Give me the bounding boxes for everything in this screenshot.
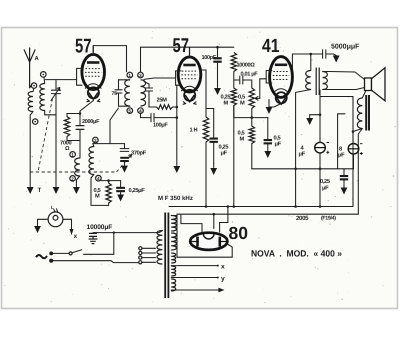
terminal 1 bbox=[70, 152, 76, 158]
output transformer primary bbox=[306, 71, 311, 90]
wires: OT secondary to speaker bbox=[323, 72, 365, 90]
terminal 3 bbox=[93, 137, 99, 143]
wire: field coil bottom junction bbox=[353, 129, 362, 132]
svg-text:57: 57 bbox=[173, 35, 190, 57]
IF transformer 1 primary bbox=[125, 80, 130, 106]
trimmer capacitor 370 pF bbox=[110, 144, 129, 152]
wire: B+ rail bbox=[177, 213, 358, 215]
tube V1 base bbox=[88, 87, 99, 98]
gang dashed link bbox=[38, 99, 53, 173]
resistor 7000 ohm bbox=[64, 117, 69, 137]
wire: V1 cathode down to bias network bbox=[80, 99, 93, 114]
svg-text:80: 80 bbox=[229, 223, 249, 243]
svg-text:370pF: 370pF bbox=[131, 151, 147, 157]
output transformer core bbox=[316, 68, 319, 96]
svg-text:M: M bbox=[240, 137, 245, 143]
ground (V2 grid return) bbox=[173, 166, 180, 173]
terminal 1 bbox=[127, 72, 133, 78]
primary taps bbox=[139, 247, 142, 250]
tube V4 plates bbox=[196, 237, 199, 247]
switch bbox=[49, 252, 53, 256]
svg-text:5000μμF: 5000μμF bbox=[331, 44, 360, 51]
ground (tuning cap) bbox=[53, 187, 60, 194]
svg-text:41: 41 bbox=[262, 36, 280, 57]
tube V4 filament arc bbox=[203, 234, 214, 239]
svg-text:100pF: 100pF bbox=[202, 55, 217, 61]
svg-text:M: M bbox=[240, 101, 245, 107]
wire: long vertical V2 anode choke to bus bbox=[200, 70, 207, 117]
svg-text:μF: μF bbox=[299, 152, 306, 158]
svg-text:μF: μF bbox=[275, 142, 282, 148]
pot wiper arrow bbox=[255, 97, 260, 101]
speaker field coil bbox=[357, 98, 362, 128]
tube V1 internals bbox=[87, 61, 99, 64]
resistor 0,5 M (AVC) bbox=[101, 181, 109, 183]
svg-text:μF: μF bbox=[338, 153, 345, 159]
terminal 6 bbox=[41, 72, 47, 78]
wire: secondary top to V1 grid bbox=[46, 79, 77, 81]
wire: 80 right to filament winding bbox=[177, 244, 232, 257]
wire: V3 plate to output transformer and 5000 cap bbox=[292, 54, 310, 71]
capacitor 0,5 uF screen bypass bbox=[267, 118, 269, 139]
ground (RF coil 2 primary) bbox=[73, 187, 80, 194]
tube V3 base bbox=[276, 92, 287, 103]
tube V1 57 envelope bbox=[82, 54, 105, 89]
capacitor 0,25 uF bbox=[206, 109, 214, 138]
capacitor 100pF plate bypass bbox=[217, 47, 219, 57]
svg-text:(F19/4): (F19/4) bbox=[321, 216, 336, 222]
wire: OT primary bottom to B+ vertical bbox=[296, 90, 311, 207]
electrolytic 4 uF bbox=[315, 142, 326, 153]
trimmer 75 across primary bbox=[115, 80, 130, 106]
resistor 25M grid leak bbox=[157, 105, 173, 110]
electrolytic 8 uF bbox=[352, 132, 354, 144]
svg-text:57: 57 bbox=[75, 35, 92, 57]
svg-text:10000Ω: 10000Ω bbox=[237, 63, 256, 69]
svg-text:T: T bbox=[38, 187, 42, 194]
svg-text:2005: 2005 bbox=[296, 215, 309, 222]
svg-text:M: M bbox=[95, 194, 100, 200]
capacitor 5000 uuF tone bbox=[323, 50, 337, 58]
tube V2 base bbox=[184, 90, 195, 101]
svg-text:2000μF: 2000μF bbox=[82, 119, 100, 125]
choke 1 H bbox=[203, 117, 208, 142]
speaker driver bbox=[365, 78, 372, 91]
svg-text:NOVA . MOD. « 400 »: NOVA . MOD. « 400 » bbox=[251, 249, 342, 259]
terminal 5 (top of antenna coil) bbox=[31, 83, 36, 88]
resistor 0,5 M lower bbox=[234, 106, 268, 127]
tube V2 57 envelope bbox=[178, 57, 201, 92]
resistor 0,25 M bbox=[231, 88, 236, 106]
wire: 80 filament centre tap to B+ rail bbox=[213, 214, 215, 228]
scan noise bbox=[4, 31, 396, 303]
svg-text:10000μF: 10000μF bbox=[87, 224, 113, 231]
wire: V3 cathode to ground bbox=[269, 100, 281, 108]
svg-text:0,25: 0,25 bbox=[320, 179, 330, 185]
terminal 4 bbox=[96, 175, 102, 181]
svg-text:μF: μF bbox=[221, 151, 228, 157]
svg-text:25M: 25M bbox=[157, 98, 168, 104]
svg-text:M: M bbox=[224, 101, 229, 107]
wire: IFT1 secondary top to V2 grid cap and grid-leak network bbox=[141, 47, 234, 72]
variable tuning capacitor C1 bbox=[52, 80, 61, 187]
speaker cone bbox=[372, 68, 386, 101]
tube V3 41 envelope bbox=[270, 57, 293, 98]
wire: HV to 80 plates bbox=[171, 214, 177, 257]
capacitor 0,25 uF (AVC) bbox=[109, 181, 121, 187]
tuning coil secondary bbox=[40, 84, 45, 111]
tube V1 grid bracket bbox=[77, 68, 82, 85]
terminal circle on lower lead bbox=[33, 119, 38, 124]
svg-text:1 H: 1 H bbox=[190, 128, 198, 134]
RF transformer 2 secondary bbox=[89, 147, 94, 175]
tube V2 top cap bbox=[189, 47, 191, 57]
svg-text:0,01 μF: 0,01 μF bbox=[241, 72, 259, 78]
svg-text:0,25μF: 0,25μF bbox=[129, 188, 146, 194]
terminal 2 bbox=[70, 176, 76, 182]
AC source bbox=[36, 255, 47, 258]
RF transformer 2 primary bbox=[75, 158, 80, 176]
trimmer across secondary bbox=[144, 82, 153, 108]
antenna bbox=[24, 48, 35, 89]
capacitor 0,25 uF output bbox=[343, 169, 345, 175]
filament windings bbox=[171, 253, 176, 263]
wire: mains top bbox=[93, 231, 163, 233]
power transformer secondary HV bbox=[171, 216, 176, 232]
wire from coil2 secondary top up to IFT1 trimmer bbox=[110, 108, 119, 144]
terminal 5 bbox=[127, 108, 133, 114]
resistor 10000 ohm bbox=[231, 53, 236, 72]
pilot lamp bbox=[48, 212, 63, 227]
terminal 4 bbox=[138, 108, 144, 114]
tube V1 top cap bbox=[92, 46, 94, 55]
svg-text:μF: μF bbox=[322, 186, 329, 192]
IF transformer 1 secondary bbox=[141, 80, 146, 106]
tube V2 internals bbox=[183, 64, 195, 67]
tube V3 grid bracket bbox=[266, 71, 272, 84]
wire: V2 grid circuit down to ground bbox=[176, 85, 178, 165]
svg-text:100μF: 100μF bbox=[153, 123, 168, 129]
tube V4 80 envelope bbox=[190, 233, 227, 250]
wire: tube V1 grid-cap line to IFT1 primary bbox=[93, 46, 126, 72]
svg-text:75: 75 bbox=[112, 91, 118, 97]
heater lead arrow bbox=[171, 289, 223, 291]
wire: mains lower to transformer tap bbox=[53, 261, 138, 263]
capacitor 0,01 uF bbox=[234, 72, 252, 89]
capacitor 100uF coupling bbox=[141, 113, 177, 121]
capacitor 2000 uF bbox=[76, 126, 85, 130]
power transformer primary bbox=[157, 231, 162, 265]
output transformer secondary bbox=[323, 72, 328, 90]
terminal 3 bbox=[138, 72, 144, 78]
wire: main bottom bus bbox=[169, 206, 353, 208]
antenna coil primary bbox=[28, 92, 33, 112]
tube V3 internals bbox=[275, 64, 287, 67]
wire/ground at 4uF top bbox=[310, 97, 320, 143]
ground (antenna coil) bbox=[27, 187, 34, 194]
wire: mid horizontal rail bbox=[252, 168, 354, 170]
power transformer core bbox=[165, 213, 168, 299]
potentiometer 0,5 M upper bbox=[249, 88, 254, 109]
filament winding leads x,y bbox=[171, 265, 217, 267]
tube V2 grid bracket bbox=[176, 71, 181, 85]
wire: secondary bottom to tuning cap column bbox=[45, 111, 56, 115]
svg-text:M F 350 kHz: M F 350 kHz bbox=[158, 195, 193, 202]
